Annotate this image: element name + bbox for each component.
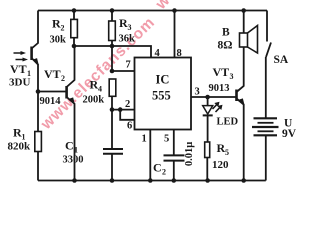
svg-text:VT: VT bbox=[44, 67, 61, 81]
label R1 bbox=[13, 126, 26, 142]
svg-text:4: 4 bbox=[98, 85, 102, 94]
label VT1 bbox=[10, 62, 31, 78]
svg-text:120: 120 bbox=[212, 159, 229, 171]
resistor R1 bbox=[35, 132, 42, 181]
node pin8 top rail junction bbox=[172, 8, 177, 13]
resistor R5 bbox=[205, 142, 210, 181]
wire VT2 base bbox=[38, 91, 67, 93]
label VT2 bbox=[44, 67, 65, 83]
watermark www.elecfans.com bbox=[37, 14, 158, 134]
watermark www fragment top right bbox=[152, 0, 205, 13]
svg-text:1: 1 bbox=[74, 146, 78, 155]
pin label 7 bbox=[126, 60, 131, 71]
svg-text:2: 2 bbox=[162, 168, 166, 177]
node R3 bottom / pin4 wire junction bbox=[110, 44, 115, 49]
label 0.01u rotated bbox=[184, 142, 195, 166]
label 3DU bbox=[9, 77, 30, 89]
wire pin 7 bbox=[112, 70, 135, 72]
node R2 bottom / pin4 wire / VT2 collector bbox=[72, 44, 77, 49]
label R2 bbox=[52, 17, 65, 33]
svg-text:9014: 9014 bbox=[40, 96, 62, 107]
node speaker top rail junction bbox=[241, 8, 246, 13]
label 30k bbox=[50, 35, 67, 46]
node bottom rail junction pin1 bbox=[148, 178, 153, 183]
svg-text:C: C bbox=[65, 139, 74, 153]
label SA bbox=[274, 54, 289, 66]
svg-text:3300: 3300 bbox=[63, 155, 84, 166]
resistor R4 bbox=[109, 79, 116, 110]
capacitor C2 bbox=[164, 155, 185, 180]
node pin2 junction left bbox=[110, 107, 115, 112]
svg-text:6: 6 bbox=[127, 121, 132, 132]
svg-text:2: 2 bbox=[61, 74, 65, 83]
LED D1 bbox=[203, 97, 213, 144]
wire pin 6 bbox=[120, 110, 134, 120]
svg-text:36k: 36k bbox=[119, 34, 136, 45]
node bottom rail junction R5 bbox=[205, 178, 210, 183]
wire pin 2 bbox=[112, 109, 135, 111]
svg-text:SA: SA bbox=[274, 54, 289, 66]
svg-text:200k: 200k bbox=[83, 95, 105, 106]
node junction VT1 emitter / R1 / VT2 base bbox=[36, 89, 41, 94]
node R3 top rail junction bbox=[110, 8, 115, 13]
svg-text:3: 3 bbox=[128, 23, 132, 32]
svg-text:7: 7 bbox=[126, 60, 131, 71]
node R2 top rail junction bbox=[72, 8, 77, 13]
pin label 4 bbox=[155, 48, 161, 59]
svg-text:VT: VT bbox=[213, 65, 230, 79]
label U bbox=[284, 118, 293, 130]
pin label 3 bbox=[195, 87, 200, 98]
pin label 2 bbox=[125, 99, 130, 110]
label 8 ohm bbox=[218, 40, 233, 52]
svg-text:1: 1 bbox=[142, 134, 147, 145]
svg-text:5: 5 bbox=[225, 148, 229, 157]
op-amp U1: IC 555 box bbox=[135, 58, 192, 130]
svg-text:30k: 30k bbox=[50, 35, 67, 46]
svg-text:5: 5 bbox=[164, 134, 169, 145]
resistor R2 bbox=[71, 11, 78, 47]
wire pin 4 to R2/R3 bbox=[74, 46, 151, 58]
node bottom rail junction VT3 emitter bbox=[241, 178, 246, 183]
label LED bbox=[217, 117, 239, 128]
label 36k bbox=[119, 34, 136, 45]
node pin3 / LED junction bbox=[205, 95, 210, 100]
transistor VT1 (phototransistor) bbox=[32, 11, 38, 133]
svg-text:555: 555 bbox=[152, 89, 171, 103]
label R3 bbox=[119, 16, 132, 32]
label R5 bbox=[217, 141, 230, 157]
label VT3 bbox=[213, 65, 234, 81]
svg-text:2: 2 bbox=[61, 24, 65, 33]
switch SA bbox=[266, 11, 271, 118]
label C2 bbox=[153, 161, 166, 177]
transistor VT2 bbox=[67, 46, 75, 181]
light arrows into VT1 bbox=[14, 51, 29, 62]
wire bottom rail bbox=[38, 180, 266, 182]
svg-text:2: 2 bbox=[125, 99, 130, 110]
node bottom rail junction VT2 bbox=[72, 178, 77, 183]
label 820k bbox=[8, 141, 32, 153]
label 120 bbox=[212, 159, 229, 171]
svg-text:IC: IC bbox=[156, 73, 170, 87]
svg-text:www.el: www.el bbox=[152, 0, 205, 13]
node pin6 branch junction bbox=[118, 107, 123, 112]
svg-text:3DU: 3DU bbox=[9, 77, 30, 89]
battery U 9V bbox=[252, 118, 279, 180]
label 9013 bbox=[209, 83, 230, 94]
wire pin 1 bbox=[149, 130, 151, 181]
pin label 1 bbox=[142, 134, 147, 145]
svg-text:4: 4 bbox=[155, 48, 161, 59]
wire pin 8 bbox=[174, 11, 176, 58]
svg-text:C: C bbox=[153, 161, 162, 175]
svg-text:0.01μ: 0.01μ bbox=[184, 142, 195, 166]
pin label 5 bbox=[164, 134, 169, 145]
wire top rail bbox=[38, 10, 267, 12]
svg-text:9013: 9013 bbox=[209, 83, 230, 94]
pin label 8 bbox=[177, 48, 182, 59]
label R4 bbox=[90, 78, 103, 94]
svg-text:LED: LED bbox=[217, 117, 239, 128]
svg-text:VT: VT bbox=[10, 62, 27, 76]
label C1 bbox=[65, 139, 78, 155]
svg-text:3: 3 bbox=[230, 72, 234, 81]
svg-text:820k: 820k bbox=[8, 141, 32, 153]
node bottom rail junction C1 bbox=[110, 178, 115, 183]
transistor VT3 bbox=[237, 47, 244, 181]
node bottom rail junction C2 bbox=[172, 178, 177, 183]
label 9014 bbox=[40, 96, 62, 107]
label IC bbox=[156, 73, 170, 87]
label 3300 bbox=[63, 155, 84, 166]
node pin7 junction bbox=[110, 69, 115, 74]
svg-text:8Ω: 8Ω bbox=[218, 40, 233, 52]
label 555 bbox=[152, 89, 171, 103]
svg-text:8: 8 bbox=[177, 48, 182, 59]
capacitor C1 bbox=[103, 110, 123, 181]
pin label 6 bbox=[127, 121, 132, 132]
svg-text:9V: 9V bbox=[282, 128, 297, 140]
label 9V bbox=[282, 128, 297, 140]
speaker B bbox=[240, 11, 258, 54]
svg-text:B: B bbox=[222, 27, 230, 39]
wire pin 3 bbox=[191, 96, 237, 98]
resistor R3 bbox=[109, 11, 116, 72]
wire pin 5 bbox=[173, 130, 175, 156]
svg-text:3: 3 bbox=[195, 87, 200, 98]
label 200k bbox=[83, 95, 105, 106]
label B bbox=[222, 27, 230, 39]
LED light arrows bbox=[213, 102, 223, 112]
